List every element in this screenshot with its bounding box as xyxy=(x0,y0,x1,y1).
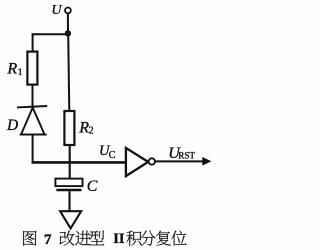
caption char 分 xyxy=(140,231,155,246)
node U terminal xyxy=(65,7,71,13)
diode D cathode bar xyxy=(17,106,47,107)
caption char 图 xyxy=(23,231,36,246)
svg-text:7: 7 xyxy=(44,232,52,248)
svg-text:C: C xyxy=(87,178,98,195)
wire bottom rail xyxy=(32,161,126,164)
caption char 进 xyxy=(75,231,90,246)
wire capacitor to ground xyxy=(68,191,70,211)
capacitor C top plate xyxy=(55,179,82,187)
diode D base line xyxy=(20,134,47,136)
svg-text:U: U xyxy=(51,3,62,18)
resistor R1 xyxy=(27,52,37,85)
diode D triangle xyxy=(21,108,45,135)
wire R1 to diode xyxy=(32,85,34,107)
svg-text:C: C xyxy=(109,150,116,161)
caption char 复 xyxy=(156,231,171,246)
caption char 改 xyxy=(60,231,75,246)
caption xyxy=(23,231,186,248)
svg-text:D: D xyxy=(6,117,18,134)
wire junction to R2 xyxy=(68,34,69,111)
wire diode to bottom rail xyxy=(32,135,34,163)
wire U terminal to junction xyxy=(67,13,69,34)
inverter U1 triangle xyxy=(126,148,148,176)
resistor R2 xyxy=(64,111,74,145)
svg-text:II: II xyxy=(113,231,125,247)
capacitor C bottom plate xyxy=(56,189,81,191)
wire top horizontal xyxy=(33,33,69,35)
caption char 位 xyxy=(171,231,186,246)
inverter U1 bubble xyxy=(149,158,155,164)
wire inverter output xyxy=(155,160,206,162)
svg-text:2: 2 xyxy=(89,125,94,136)
ground xyxy=(60,211,81,228)
caption char 积 xyxy=(126,231,141,246)
caption char 型 xyxy=(89,231,104,246)
junction node xyxy=(65,30,71,36)
wire R2 to capacitor xyxy=(69,145,71,179)
wire junction down to R1 xyxy=(32,33,34,52)
svg-text:R: R xyxy=(6,60,17,77)
svg-text:1: 1 xyxy=(18,68,23,78)
arrowhead output xyxy=(202,157,211,166)
svg-text:R: R xyxy=(78,120,89,137)
svg-text:RST: RST xyxy=(178,150,195,160)
